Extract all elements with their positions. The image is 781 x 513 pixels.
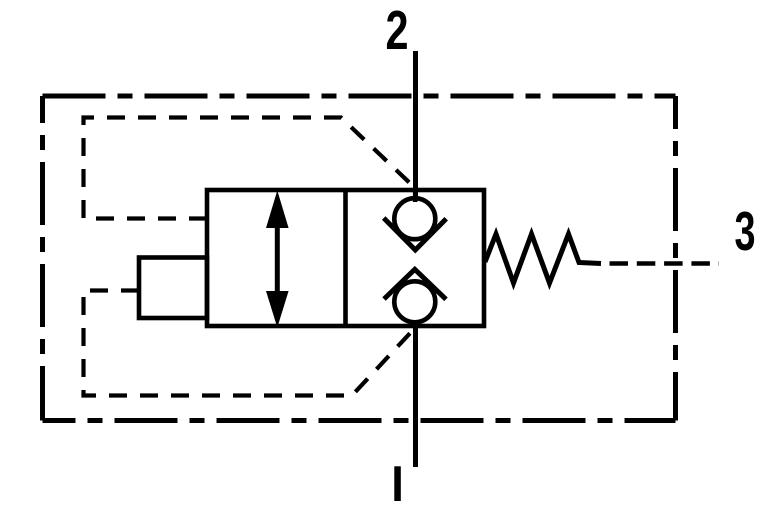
flow direction arrow shaft: [275, 212, 280, 305]
spring: [485, 234, 601, 283]
enclosure boundary (chain line) right edge: [673, 96, 678, 421]
valve body outline: [207, 190, 484, 326]
check valve top ball: [394, 198, 435, 239]
pilot line upper (dashed) from valve left side up and over to port 2: [84, 118, 415, 219]
enclosure boundary (chain line) left edge: [40, 96, 45, 421]
svg-text:2: 2: [386, 0, 409, 61]
check valve bottom ball: [394, 281, 435, 322]
flow direction arrow head down: [266, 291, 289, 328]
pilot actuator box: [139, 258, 207, 319]
flow direction arrow head up: [266, 191, 289, 229]
valve body divider: [343, 190, 348, 326]
port 1 line: [413, 321, 418, 467]
port label 1: [394, 466, 401, 501]
check valve bottom seat: [384, 269, 446, 299]
enclosure boundary (chain line) top edge: [43, 94, 676, 99]
pilot line lower (dashed) from actuator box down and over to port 1: [84, 291, 414, 396]
enclosure boundary (chain line) bottom edge: [43, 418, 676, 423]
check valve top seat: [384, 218, 447, 250]
port 3 pilot line (dashed): [610, 261, 720, 266]
svg-text:3: 3: [735, 200, 756, 262]
port 2 line: [413, 51, 418, 200]
check valve top stub: [413, 188, 418, 202]
check valve bottom stub: [413, 320, 418, 328]
